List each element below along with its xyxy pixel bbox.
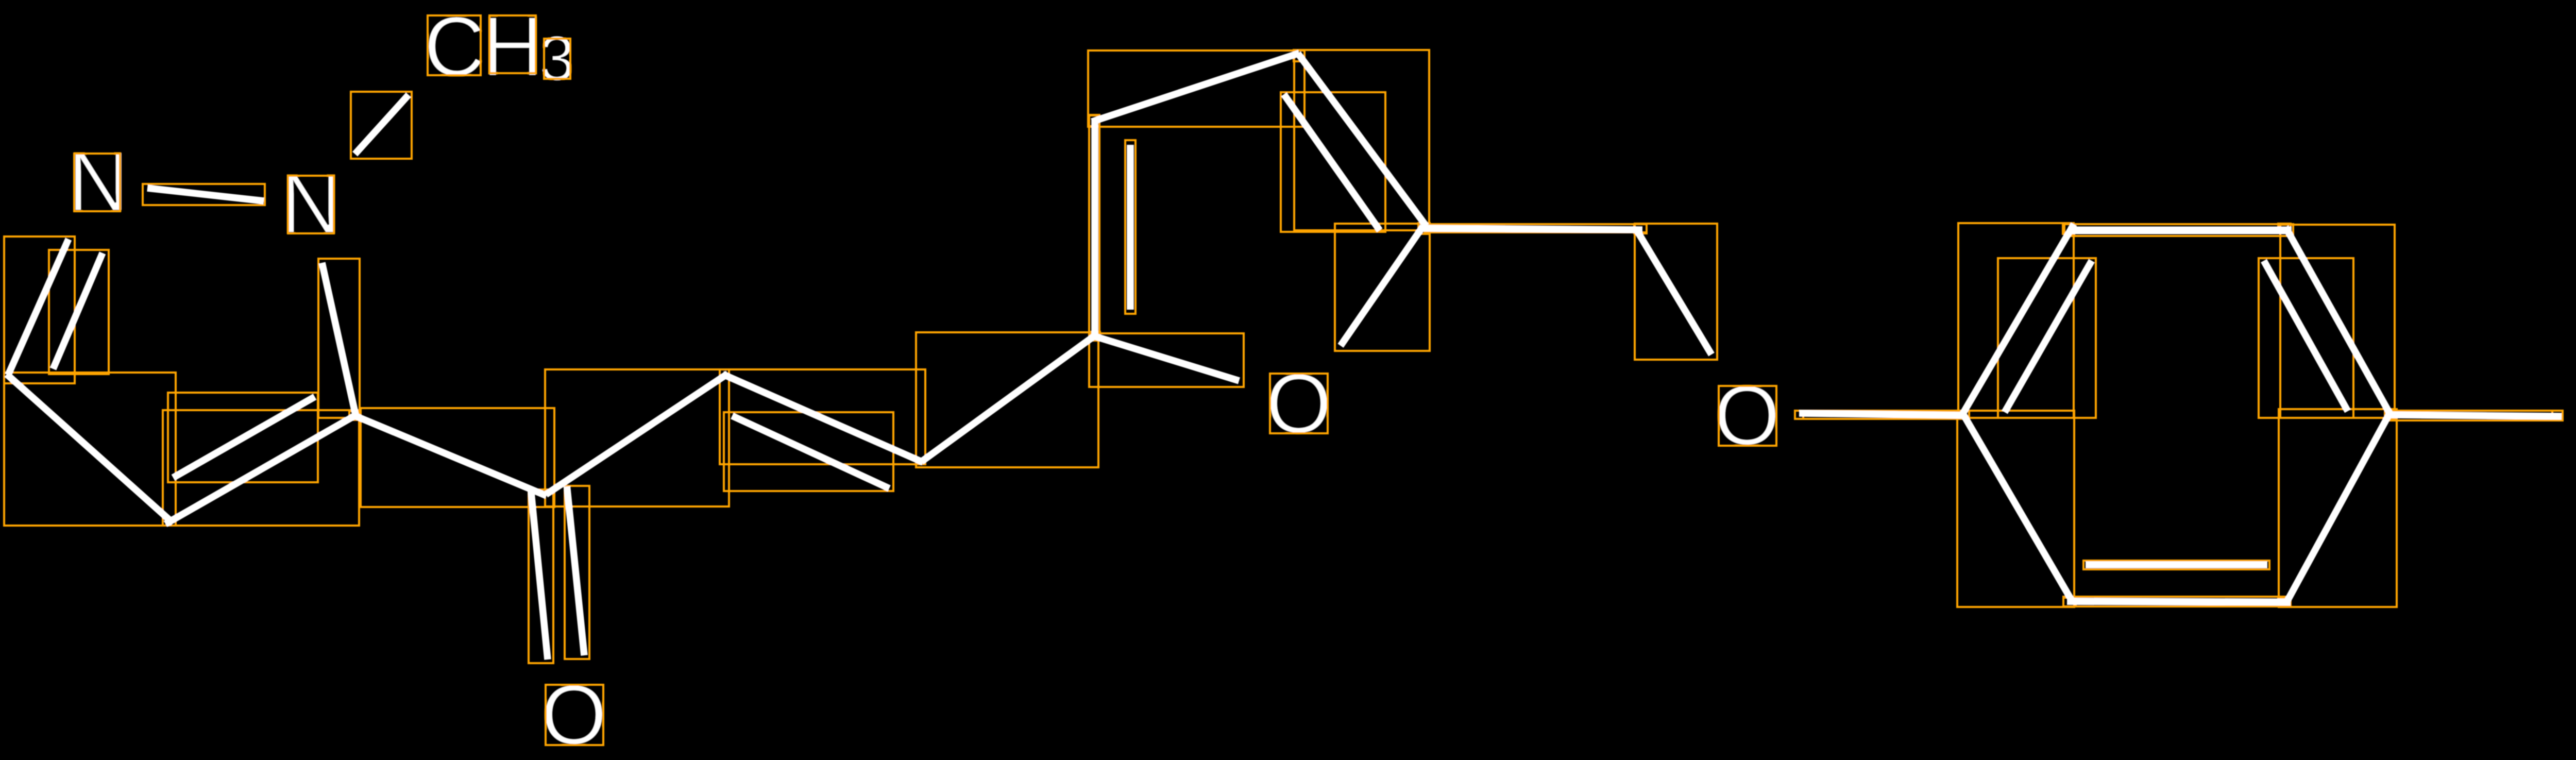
bond F2-F3: [1092, 53, 1299, 122]
box bond C8-F1: [916, 332, 1098, 467]
box bond Oether-C1: [1795, 411, 1962, 419]
vertex box C3 benzene: [2278, 224, 2291, 233]
bond F1-O ring: [1093, 336, 1239, 381]
box bond C3=C4 main: [2280, 225, 2395, 418]
box bond C1=C2 inner: [1998, 258, 2096, 418]
box bond C3-C4: [4, 373, 176, 526]
atom N2 box: [74, 154, 120, 211]
vertex box F3: [1294, 50, 1304, 61]
bond F1=F2 main: [1091, 120, 1098, 337]
box bond C5-C6 benzene: [2063, 597, 2290, 606]
box bond CH2-Oether: [1635, 224, 1717, 360]
box bond C5=C6 inner: [2083, 561, 2269, 569]
atom CH3 H box: [489, 15, 536, 73]
box bond C4=C5 inner: [168, 393, 318, 482]
box bond C6-C1: [1957, 411, 2074, 607]
box bond C2-C3: [2064, 224, 2293, 236]
bond C4-C5 benzene: [2287, 414, 2389, 602]
bond C1=C2 main: [1962, 224, 2074, 415]
box bond C5-N1: [318, 259, 360, 418]
vertex box C4 benzene: [2385, 409, 2396, 419]
box bond C6-C7: [545, 369, 729, 506]
bond F3=F4 inner: [1284, 94, 1380, 230]
bond N2=C3 main: [8, 239, 69, 375]
vertex box bond end at Nplus: [2552, 411, 2563, 420]
vertex box F2: [1089, 115, 1099, 126]
bond C5-C6: [354, 415, 547, 496]
box bond F4-CH2: [1425, 224, 1647, 232]
vertex box CH2: [1634, 224, 1647, 233]
svg-text:O: O: [1266, 356, 1332, 451]
vertex box C5 pyrazole: [349, 411, 361, 420]
box bond C1=C2 main: [1958, 223, 2074, 418]
box bond C3=C4 inner: [2259, 258, 2353, 418]
bond C5-C6 benzene: [2067, 601, 2291, 602]
atom N1 box: [288, 176, 334, 233]
bond Oether-C1: [1799, 413, 1966, 415]
box bond N1-N2: [143, 184, 265, 205]
bond C6-C1 benzene: [1963, 413, 2072, 601]
bond C6-C7: [546, 374, 728, 495]
atom CH3 C box: [428, 15, 481, 75]
atom O ketone box: [546, 685, 603, 745]
vertex box C5 benzene: [2278, 598, 2291, 606]
vertex box F1: [1089, 332, 1100, 341]
box bond C4-C5: [2279, 409, 2397, 607]
box bond C6=O line a: [529, 489, 553, 663]
box bond F1=F2 inner: [1125, 140, 1136, 314]
box bond F4-O ring: [1335, 224, 1430, 351]
box bond F1=F2 main: [1089, 115, 1099, 341]
bond C3-C4: [7, 374, 173, 523]
box bond C4=C5 main: [163, 410, 359, 526]
bond C8-F1: [922, 334, 1097, 462]
box bond C6=O line b: [565, 486, 589, 659]
bond C4-Nplus: [2386, 415, 2562, 416]
svg-text:N: N: [280, 156, 342, 251]
bond C1=C2 inner: [2005, 261, 2092, 412]
bond F4-O ring: [1341, 226, 1423, 346]
box bond C5-C6: [361, 408, 554, 507]
bond C3=C4 main: [2285, 227, 2391, 416]
box bond C7=C8 inner: [724, 412, 893, 491]
box bond F2-F3: [1088, 50, 1304, 127]
bond C5=C6 inner: [2086, 561, 2267, 568]
svg-text:H: H: [482, 0, 543, 94]
atom O furan box: [1270, 374, 1328, 433]
bond C5-N1: [322, 263, 356, 416]
box bond C4-Nplus: [2388, 411, 2563, 420]
svg-text:C: C: [423, 0, 485, 94]
bond F1=F2 inner: [1127, 145, 1134, 310]
box bond F3=F4 main: [1294, 50, 1429, 230]
box bond N1-CH3: [351, 92, 412, 159]
vertex box C2 benzene: [2063, 224, 2074, 234]
vertex box C1 benzene: [1957, 411, 1969, 419]
bond C4=C5 inner: [173, 397, 315, 478]
box bond C7=C8 main: [720, 369, 925, 464]
box bond N2=C3 inner: [49, 250, 109, 374]
bond CH2-Oether: [1637, 230, 1711, 354]
bond N2=C3 inner: [53, 253, 103, 369]
bond C4=C5 main: [165, 414, 359, 525]
vertex box F4: [1418, 223, 1430, 234]
bond C6=O line b: [567, 486, 584, 655]
bond C2-C3 benzene: [2068, 227, 2292, 234]
bond C7=C8 inner: [732, 416, 889, 488]
bond N1-CH3: [355, 95, 409, 154]
bond C3=C4 inner: [2264, 261, 2348, 411]
vertex box C6 benzene: [2063, 598, 2076, 606]
box bond F1-O ring: [1089, 333, 1244, 387]
box bond F3=F4 inner: [1281, 92, 1385, 232]
vertex box Oether bond end: [1795, 411, 1803, 419]
bond F3=F4 main: [1298, 54, 1426, 226]
atom O ether box: [1719, 386, 1776, 446]
atom CH3 subscript 3 box: [544, 39, 570, 79]
bond F4-CH2: [1423, 228, 1642, 230]
svg-text:O: O: [1714, 368, 1780, 463]
bond N1-N2: [147, 188, 264, 201]
bond C7=C8 main: [723, 374, 923, 462]
box bond N2=C3 main: [4, 237, 75, 383]
bond C6=O line a: [531, 489, 548, 660]
